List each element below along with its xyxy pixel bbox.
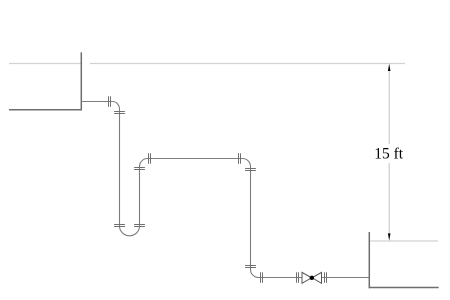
lower tank wall bbox=[368, 232, 370, 288]
flange pair left of valve bbox=[297, 272, 299, 283]
flange pair above U-bend left leg bbox=[114, 225, 125, 227]
flange pair right of second elbow bbox=[149, 153, 151, 164]
dimension arrowhead up bbox=[388, 64, 391, 71]
dimension line lower segment bbox=[388, 163, 390, 235]
flange pair above fourth elbow bbox=[245, 266, 256, 268]
flange pair below second elbow bbox=[134, 168, 145, 170]
elevation reference line bbox=[90, 63, 405, 65]
flange pair right of fourth elbow bbox=[261, 272, 263, 283]
dimension arrowhead down bbox=[388, 233, 391, 240]
upper tank wall bbox=[80, 52, 82, 110]
upper tank bottom bbox=[9, 109, 82, 111]
flange pair right of valve bbox=[325, 272, 327, 283]
lower tank bottom bbox=[369, 287, 438, 289]
valve V1 (gate valve bowtie) bbox=[302, 272, 322, 283]
flange pair above U-bend right leg bbox=[134, 225, 145, 227]
svg-text:15 ft: 15 ft bbox=[374, 145, 404, 162]
flange pair below third elbow bbox=[245, 169, 256, 171]
flange pair left of third elbow bbox=[239, 153, 241, 164]
dimension line upper segment bbox=[388, 70, 390, 144]
upper tank water level line bbox=[9, 63, 81, 65]
dimension text 15 ft bbox=[374, 145, 404, 162]
wire pipe run from upper tank to lower tank bbox=[81, 102, 369, 278]
flange pair below first elbow bbox=[114, 112, 125, 114]
lower tank water level line bbox=[370, 240, 438, 242]
flange pair on tank outlet bbox=[109, 96, 111, 107]
